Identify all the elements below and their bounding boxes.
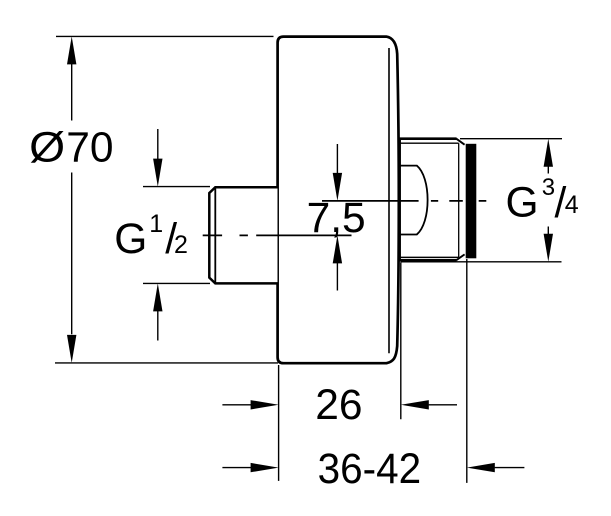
svg-text:4: 4	[565, 191, 579, 219]
26 right arrow shaft	[429, 404, 457, 406]
svg-text:G: G	[114, 216, 147, 263]
G 3/4 thread crest top edge	[398, 137, 456, 140]
26 left extension line	[278, 365, 280, 481]
svg-text:2: 2	[174, 231, 188, 259]
svg-text:7,5: 7,5	[307, 195, 366, 242]
G 3/4 thread crest bottom edge	[398, 259, 456, 262]
7,5 upper arrow shaft	[336, 144, 338, 174]
G 3/4 top chamfer	[456, 139, 464, 145]
svg-text:36-42: 36-42	[318, 446, 422, 493]
escutcheon body outline	[278, 37, 399, 364]
thread bore recess	[400, 166, 428, 235]
dia70 arrow up	[67, 36, 76, 64]
G3/4 bottom extension line	[401, 261, 562, 263]
svg-text:26: 26	[315, 382, 362, 429]
G 1/2 male thread connector outline	[209, 187, 277, 283]
G1/2 bottom arrow shaft	[157, 311, 159, 341]
svg-text:70: 70	[66, 125, 113, 172]
G3/4 bottom arrow shaft	[547, 227, 549, 235]
seal washer (black band)	[466, 144, 477, 258]
26 arrow right	[251, 400, 279, 409]
G3/4 arrow down	[544, 234, 553, 262]
36-42 arrow right	[251, 463, 279, 472]
G 3/4 thread root top line	[400, 142, 459, 144]
26 right extension line	[400, 263, 402, 420]
G 3/4 end face line	[458, 143, 460, 257]
36-42 right arrow shaft	[495, 467, 525, 469]
G1/2 top extension line	[143, 186, 210, 188]
26 left arrow shaft	[222, 404, 251, 406]
G 3/4 bottom chamfer	[456, 254, 464, 260]
36-42 arrow left	[467, 463, 495, 472]
G1/2 top arrow shaft	[157, 129, 159, 159]
G 3/4 axis center line	[322, 200, 486, 202]
dia70 dimension line upper segment	[71, 64, 73, 121]
dia70 arrow down	[67, 335, 76, 363]
svg-text:Ø: Ø	[29, 125, 65, 172]
26 arrow left	[401, 400, 429, 409]
G1/2 bottom extension line	[143, 282, 210, 284]
dia70 dimension line lower segment	[71, 173, 73, 335]
36-42 left arrow shaft	[222, 467, 251, 469]
dia70 bottom extension line	[55, 362, 278, 364]
G 1/2 axis center line	[203, 234, 352, 236]
svg-text:G: G	[506, 180, 539, 227]
7,5 arrow up	[333, 235, 342, 263]
svg-text:3: 3	[542, 174, 555, 201]
G1/2 arrow down	[153, 159, 162, 187]
G3/4 top arrow shaft	[547, 166, 549, 174]
7,5 arrow down	[333, 173, 342, 201]
36-42 right extension line	[466, 259, 468, 483]
dia70 top extension line	[56, 35, 274, 37]
G 1/2 thread chamfer line	[214, 188, 216, 283]
G3/4 arrow up	[544, 139, 553, 167]
7,5 lower arrow shaft	[336, 263, 338, 291]
G1/2 arrow up	[153, 283, 162, 311]
svg-text:1: 1	[149, 210, 163, 238]
escutcheon face inner edge line	[388, 48, 390, 353]
G 3/4 connector left edge	[398, 138, 401, 261]
G3/4 top extension line	[460, 138, 562, 140]
G 3/4 thread root bottom line	[400, 256, 459, 258]
